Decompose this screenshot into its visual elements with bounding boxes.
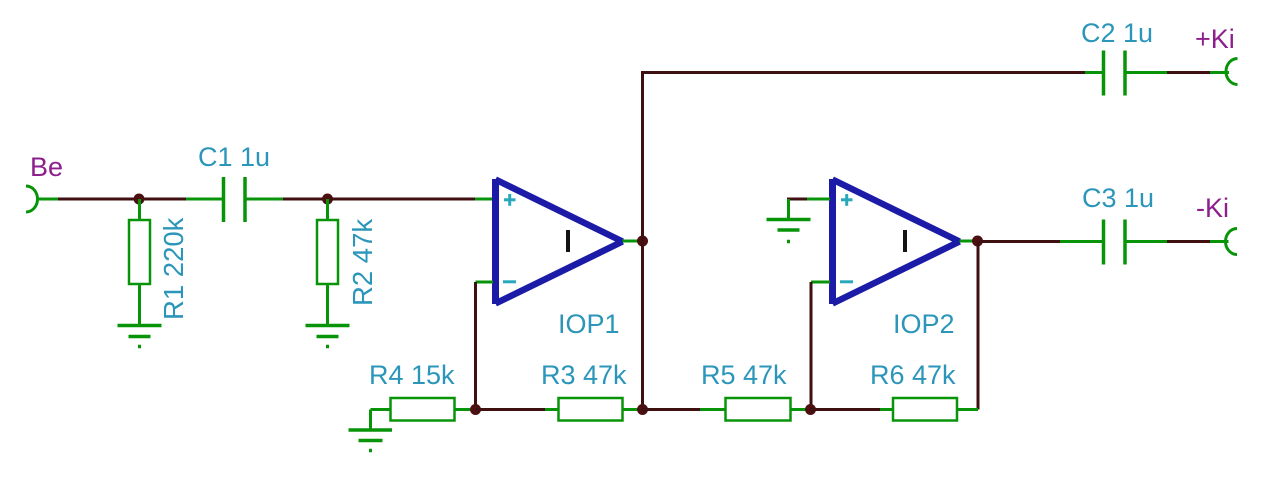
- ground under R2: [306, 326, 350, 347]
- connector +Ki (output open terminal): [1226, 59, 1238, 85]
- wire C1 to node B: [283, 198, 330, 201]
- wire IOP1 minus pin lead: [476, 281, 494, 284]
- svg-text:C2 1u: C2 1u: [1081, 18, 1153, 48]
- svg-text:IOP1: IOP1: [558, 309, 620, 339]
- op-amp IOP1: [496, 179, 623, 304]
- svg-text:R3 47k: R3 47k: [541, 360, 627, 390]
- svg-text:C3 1u: C3 1u: [1082, 183, 1154, 213]
- wire ground up to R4: [369, 410, 372, 431]
- wire C3 right lead: [1127, 240, 1168, 243]
- wire C1 right lead: [247, 198, 284, 201]
- node A junction: [134, 194, 145, 205]
- node OUT2 junction: [972, 236, 983, 247]
- resistor R6: [893, 398, 957, 421]
- wire C2 right lead: [1127, 71, 1168, 74]
- op-amp IOP2: [833, 179, 960, 304]
- resistor R4: [391, 398, 455, 421]
- IOP1 inner bar: [566, 230, 570, 252]
- wire IOP2 output lead: [960, 240, 975, 243]
- capacitor C1: [224, 177, 246, 222]
- svg-text:R2 47k: R2 47k: [347, 219, 378, 306]
- wire R6 left lead: [880, 408, 893, 411]
- resistor R5: [726, 398, 791, 421]
- ground under R1: [118, 326, 162, 347]
- svg-text:R4 15k: R4 15k: [369, 360, 455, 390]
- IOP1 minus marking: [503, 280, 516, 283]
- wire R4 to node C: [455, 408, 471, 411]
- IOP2 plus marking: [841, 194, 853, 206]
- wire node E to R6: [811, 408, 881, 411]
- svg-text:R6 47k: R6 47k: [870, 360, 956, 390]
- wire C3 left lead: [1060, 240, 1103, 243]
- wire R5 left lead: [700, 408, 726, 411]
- wire OUT2 down: [977, 241, 980, 410]
- svg-text:R5 47k: R5 47k: [701, 360, 787, 390]
- wire node A to C1 left: [186, 198, 223, 201]
- node E junction: [805, 404, 816, 415]
- node OUT1 junction: [637, 236, 648, 247]
- ground at IOP2 plus: [767, 220, 811, 242]
- wire IOP1 minus feedback down: [474, 282, 477, 410]
- wire IOP2 plus pin lead: [807, 198, 830, 201]
- capacitor C2: [1104, 51, 1126, 96]
- IOP1 plus marking: [504, 194, 516, 206]
- wire R2 to ground: [326, 284, 329, 325]
- wire Be to node A: [58, 198, 186, 201]
- wire R3 left lead: [545, 408, 559, 411]
- wire R6 to OUT2 corner: [957, 408, 978, 411]
- resistor R3: [559, 398, 623, 421]
- wire C2 left lead: [1085, 71, 1103, 74]
- wire IOP1 plus pin lead: [475, 198, 493, 201]
- wire R5 to node E: [791, 408, 807, 411]
- wire OUT2 to C3: [980, 240, 1060, 243]
- wire R1 to ground: [138, 284, 141, 325]
- wire top row to C2: [641, 71, 1085, 74]
- svg-text:IOP2: IOP2: [893, 309, 955, 339]
- wire R3 to node D: [623, 408, 639, 411]
- resistor R2: [317, 220, 338, 284]
- wire node C to R3: [476, 408, 546, 411]
- wire IOP1 output lead: [623, 240, 640, 243]
- wire IOP2 minus pin lead: [811, 281, 830, 284]
- svg-text:-Ki: -Ki: [1196, 193, 1229, 223]
- wire ground corner to R4: [371, 408, 391, 411]
- wire node B down to R2: [326, 199, 329, 220]
- svg-text:Be: Be: [30, 152, 63, 182]
- ground at R4: [349, 430, 393, 451]
- wire Be green lead: [36, 198, 58, 201]
- svg-text:+Ki: +Ki: [1195, 24, 1235, 54]
- wire -Ki green lead: [1210, 240, 1229, 243]
- connector -Ki (output open terminal): [1226, 229, 1238, 255]
- IOP2 inner bar: [903, 230, 907, 252]
- wire C3 to -Ki: [1167, 240, 1210, 243]
- svg-text:C1 1u: C1 1u: [198, 142, 270, 172]
- wire ground drop IOP2: [787, 199, 790, 220]
- IOP2 minus marking: [840, 280, 853, 283]
- svg-text:R1 220k: R1 220k: [158, 217, 189, 320]
- node B junction: [322, 194, 333, 205]
- capacitor C3: [1104, 220, 1126, 265]
- wire IOP2 plus to ground corner: [787, 198, 807, 201]
- wire node A down to R1: [138, 199, 141, 220]
- wire IOP2 minus feedback down: [810, 282, 813, 410]
- wire +Ki green lead: [1210, 71, 1229, 74]
- wire node D to R5: [643, 408, 701, 411]
- wire C2 to +Ki: [1167, 71, 1210, 74]
- connector Be (input open terminal): [26, 186, 38, 212]
- wire OUT1 vertical: [641, 73, 644, 410]
- resistor R1: [129, 220, 150, 284]
- wire node B to IOP1 plus: [330, 198, 475, 201]
- node D junction: [637, 404, 648, 415]
- node C junction: [470, 404, 481, 415]
